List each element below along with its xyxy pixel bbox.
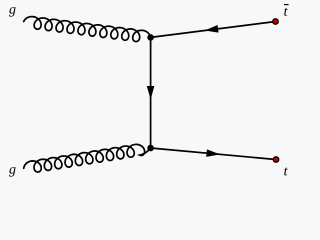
arrow on propagator (down) — [147, 86, 155, 100]
wire top quark line — [151, 148, 276, 160]
label g bottom — [9, 167, 16, 177]
label g top — [9, 7, 16, 17]
node vertex 1 — [147, 34, 154, 41]
wire antitop line — [151, 22, 276, 38]
node vertex 2 — [147, 145, 154, 152]
gluon g (top incoming) — [24, 17, 151, 42]
arrow on top line (points right) — [206, 149, 220, 157]
node top endpoint — [273, 157, 279, 163]
node antitop endpoint — [273, 19, 279, 25]
gluon g (bottom incoming) — [24, 144, 151, 172]
label t — [284, 167, 288, 175]
label tbar — [284, 8, 288, 16]
arrow on antitop line (points to vertex) — [205, 25, 219, 33]
wire quark propagator — [150, 37, 152, 148]
